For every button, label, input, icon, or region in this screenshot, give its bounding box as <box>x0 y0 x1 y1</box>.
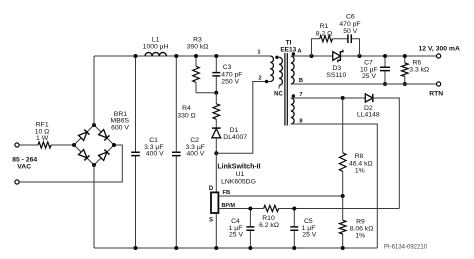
node: C2 top <box>174 54 178 58</box>
svg-text:1%: 1% <box>355 233 365 240</box>
svg-text:SS110: SS110 <box>326 72 346 79</box>
svg-text:1%: 1% <box>355 168 365 175</box>
wire: AC line 1 from terminal to RF1 and bridge <box>19 144 74 146</box>
resistor R3 390 kOhm <box>196 56 216 93</box>
diode D2 LL4148 (feedback rectifier) <box>365 94 373 102</box>
BR1 diode lower-left (left->bottom) <box>79 150 87 158</box>
wire: drain node to transformer pin 2 <box>216 82 270 154</box>
svg-text:R4: R4 <box>182 105 191 112</box>
resistor R8 46.4 kOhm 1% <box>342 98 344 196</box>
node: bridge right vertex <box>112 143 116 147</box>
capacitor C6 470 pF 50 V <box>348 34 351 43</box>
wire: D2 cathode to BP/M line <box>373 98 400 209</box>
svg-text:LNK605DG: LNK605DG <box>221 178 256 185</box>
resistor R6 3.3 kOhm <box>404 56 406 84</box>
resistor R10 6.2 kOhm <box>264 205 279 211</box>
transformer core <box>285 53 287 126</box>
svg-text:250 V: 250 V <box>221 79 239 86</box>
wire: RTN rail (pin B to RTN terminal) <box>291 83 437 85</box>
svg-text:LinkSwitch-II: LinkSwitch-II <box>217 164 260 171</box>
node: C5 top <box>292 207 296 211</box>
svg-text:8.2 Ω: 8.2 Ω <box>316 30 332 37</box>
node: R6 bottom <box>403 82 407 86</box>
svg-text:25 V: 25 V <box>362 73 376 80</box>
feedback winding phase dot <box>292 94 295 97</box>
diode D1 DL4007 (clamp) <box>212 127 221 129</box>
node: C4 top <box>248 207 252 211</box>
svg-text:C6: C6 <box>346 14 355 21</box>
svg-text:8.06 kΩ: 8.06 kΩ <box>350 225 374 232</box>
svg-text:FB: FB <box>223 190 231 196</box>
wire: pin 7 line to D2 <box>291 97 366 99</box>
node: C7 top <box>383 54 387 58</box>
svg-text:TI: TI <box>286 40 292 47</box>
svg-text:400 V: 400 V <box>146 151 164 158</box>
svg-text:DL4007: DL4007 <box>223 134 247 141</box>
input terminal bottom (neutral) <box>15 180 19 184</box>
svg-text:3.3 kΩ: 3.3 kΩ <box>409 67 429 74</box>
wire: snubber loop <box>312 39 360 56</box>
wire: bottom DC rail (primary return) <box>94 247 377 249</box>
transformer bias winding (NC) <box>279 57 282 85</box>
svg-text:50 V: 50 V <box>343 28 357 35</box>
capacitor C5 1 uF 25 V <box>293 209 295 249</box>
svg-text:PI-6134-092210: PI-6134-092210 <box>384 245 428 251</box>
svg-text:1000 µH: 1000 µH <box>143 43 169 50</box>
svg-text:25 V: 25 V <box>229 232 243 239</box>
BR1 diode upper-right (top->right) <box>99 130 107 138</box>
svg-text:S: S <box>209 218 213 224</box>
capacitor C7 10 uF 25 V <box>384 56 386 84</box>
node: C4 bottom <box>248 246 252 250</box>
transformer secondary winding A-B <box>291 56 294 84</box>
transformer primary winding pins 1-2 <box>270 56 273 82</box>
node: C3 top <box>214 54 218 58</box>
capacitor C4 1 uF 25 V <box>249 209 251 249</box>
svg-text:85 - 264: 85 - 264 <box>12 157 37 164</box>
bridge rectifier BR1 MB6S 600 V <box>74 125 114 165</box>
capacitor C1 3.3 uF 400 V <box>135 56 137 248</box>
secondary A-B phase dot <box>292 52 295 55</box>
svg-text:400 V: 400 V <box>187 151 205 158</box>
svg-text:470 pF: 470 pF <box>221 71 242 78</box>
wire: AC line 2 from terminal to bridge right vertex <box>19 145 122 182</box>
svg-text:25 V: 25 V <box>302 232 316 239</box>
svg-text:1 W: 1 W <box>36 135 49 142</box>
wire: BP/M line from U1 <box>219 208 399 210</box>
node: C1 top <box>134 54 138 58</box>
wire: pin 8 line down to bottom rail <box>291 124 378 248</box>
node: R9 bottom at rail <box>341 246 345 250</box>
capacitor C3 470 pF 250 V <box>215 56 217 93</box>
node: U1 source at bottom rail <box>214 246 218 250</box>
node: R3 top <box>194 54 198 58</box>
transformer primary phase dot <box>265 80 268 83</box>
input terminal top (line) <box>15 143 19 147</box>
svg-text:7: 7 <box>299 92 302 98</box>
resistor RF1 10 Ohm 1 W <box>38 142 51 148</box>
node: clamp junction (R3/C3 bottom, R4 top) <box>214 91 218 95</box>
wire: U1 source to bottom rail <box>215 213 217 248</box>
node: C5 bottom <box>292 246 296 250</box>
node: drain node junction <box>214 151 218 155</box>
output terminal RTN <box>437 82 441 86</box>
svg-text:NC: NC <box>274 91 283 97</box>
node: bridge bottom vertex <box>92 163 96 167</box>
resistor R1 8.2 Ohm <box>320 36 333 42</box>
svg-text:2: 2 <box>258 76 261 82</box>
wire: secondary output rail (pin A to output) <box>291 55 437 57</box>
svg-text:390 kΩ: 390 kΩ <box>187 43 209 50</box>
svg-text:LL4148: LL4148 <box>357 112 380 119</box>
output terminal positive <box>437 54 441 58</box>
inductor L1 1000 uH <box>145 52 166 56</box>
transformer feedback winding 7-8 <box>291 98 294 124</box>
wire: drain node down to U1 drain <box>215 153 217 192</box>
node: bridge left vertex <box>72 143 76 147</box>
svg-text:470 pF: 470 pF <box>339 21 360 28</box>
bias winding phase dot <box>275 56 278 59</box>
BR1 diode lower-right (bottom->right) <box>99 152 107 160</box>
svg-text:D: D <box>209 186 214 192</box>
wire: bridge - output down to bottom rail <box>93 165 95 248</box>
node: R6 top <box>403 54 407 58</box>
svg-text:VAC: VAC <box>17 164 31 171</box>
svg-text:R6: R6 <box>413 59 422 66</box>
svg-text:600 V: 600 V <box>111 125 129 132</box>
diode D3 SS110 (schottky output rectifier) <box>333 52 341 61</box>
node: C2 bottom <box>174 246 178 250</box>
svg-text:46.4 kΩ: 46.4 kΩ <box>349 160 373 167</box>
svg-text:C3: C3 <box>223 64 232 71</box>
svg-text:B: B <box>299 78 303 84</box>
resistor R4 330 Ohm <box>215 93 217 128</box>
svg-text:U1: U1 <box>236 171 245 178</box>
node: C7 bottom <box>383 82 387 86</box>
node: FB divider junction <box>341 194 345 198</box>
node: bridge top vertex <box>92 123 96 127</box>
wire: FB line from U1 to divider <box>219 195 343 197</box>
svg-text:330 Ω: 330 Ω <box>177 112 195 119</box>
svg-text:R1: R1 <box>320 23 329 30</box>
wire: bridge + output up to top DC rail <box>93 56 95 125</box>
svg-text:12 V, 300 mA: 12 V, 300 mA <box>419 45 460 52</box>
wire: top DC rail to transformer pin 1 <box>94 55 270 57</box>
node: C1 bottom <box>134 246 138 250</box>
BR1 diode upper-left (left->top) <box>79 132 87 140</box>
node: snubber left junction <box>310 54 314 58</box>
node: R8 top at pin 7 line <box>341 96 345 100</box>
svg-text:RTN: RTN <box>429 90 443 97</box>
svg-text:R8: R8 <box>355 153 364 160</box>
svg-text:6.2 kΩ: 6.2 kΩ <box>259 222 279 229</box>
resistor R9 8.06 kOhm 1% <box>342 196 344 248</box>
capacitor C2 3.3 uF 400 V <box>175 56 177 248</box>
svg-text:D3: D3 <box>332 65 341 72</box>
node: snubber right junction <box>358 54 362 58</box>
